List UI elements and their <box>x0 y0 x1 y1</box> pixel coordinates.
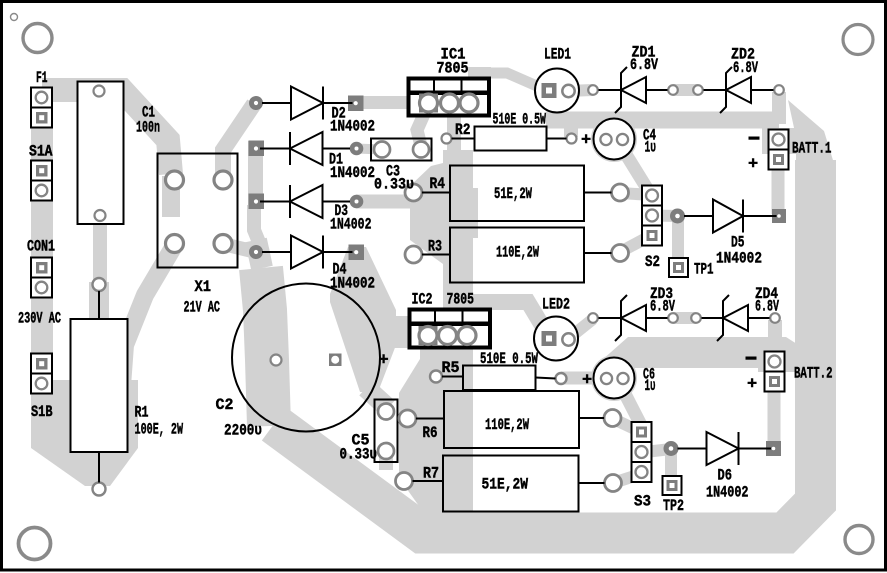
diode D2 anode pad <box>249 96 263 110</box>
svg-text:1υ: 1υ <box>645 377 656 395</box>
wire trace S3 pin2 to junction node <box>641 449 671 453</box>
wire trace D1 cathode to C3 left pad <box>356 149 382 150</box>
svg-text:21V AC: 21V AC <box>184 299 221 317</box>
op-amp U1 IC1 7805 body <box>409 79 490 116</box>
wire trace output bus right bulge <box>473 188 478 238</box>
svg-text:1N4002: 1N4002 <box>330 164 375 182</box>
zener ZD3 symbol <box>599 295 668 341</box>
switch S3 pads <box>632 422 652 482</box>
svg-text:6.8V: 6.8V <box>630 56 658 74</box>
LED2 body <box>534 317 578 361</box>
wire trace output bus below IC1 <box>443 150 473 312</box>
svg-text:S2: S2 <box>645 253 660 271</box>
diode D5 symbol <box>684 200 777 233</box>
resistor R7 pads <box>396 473 413 490</box>
capacitor C5 pads <box>378 404 394 420</box>
svg-text:0.33υ: 0.33υ <box>340 446 378 464</box>
wire trace X1 pin4 to D4 anode pad <box>223 244 256 252</box>
resistor R3 body <box>450 228 584 283</box>
svg-text:6.8V: 6.8V <box>650 298 675 316</box>
wire trace BATT.1 plus to D5 cathode pad <box>772 165 785 214</box>
svg-text:R3: R3 <box>428 238 442 256</box>
wire trace rail stub from ZD4 cathode pad <box>768 320 782 350</box>
zener ZD4 symbol <box>702 295 770 341</box>
svg-text:+: + <box>747 376 757 395</box>
svg-text:0.33υ: 0.33υ <box>374 176 414 194</box>
wire trace IC2 output bus blob R5/R6/R7 <box>399 349 473 513</box>
svg-text:100n: 100n <box>136 119 160 137</box>
wire trace between ZD3 and ZD4 <box>673 312 696 324</box>
label minus at BATT.2 <box>746 357 757 360</box>
svg-text:IC2: IC2 <box>412 291 433 309</box>
resistor R3 pads <box>405 246 422 263</box>
wire trace D3 cathode to bus <box>356 195 412 209</box>
resistor R6 leads <box>416 418 444 420</box>
diode D2 symbol <box>262 87 353 120</box>
capacitor C5 body <box>375 400 398 463</box>
wire trace R7 right pad to S3 pin3 <box>613 474 641 483</box>
wire trace inside X1 at pin1 <box>162 176 180 217</box>
capacitor C6 body <box>594 358 635 399</box>
resistor R3 leads <box>422 254 450 256</box>
resistor R6 pads <box>399 410 416 427</box>
svg-text:1N4002: 1N4002 <box>330 216 372 234</box>
resistor R5 body <box>463 366 536 391</box>
wire trace C4 to S2 pin1 <box>622 148 648 190</box>
diode D1 symbol <box>260 132 350 165</box>
zener ZD3 pads <box>588 313 598 323</box>
wire trace junction to TP2 <box>665 449 677 481</box>
wire trace at R1 top pad <box>89 282 109 321</box>
wire trace F1 top pad mound <box>31 87 53 108</box>
svg-text:R2: R2 <box>455 121 471 139</box>
resistor R7 body <box>443 456 579 512</box>
switch S1A pads <box>31 161 52 201</box>
capacitor C2 body <box>232 284 380 432</box>
svg-text:7805: 7805 <box>437 60 469 78</box>
diode D4 anode pad <box>249 245 263 259</box>
wire trace X1 pin2 up to D2 anode pad <box>223 104 254 184</box>
LED1 body <box>535 69 579 113</box>
svg-text:110E,2W: 110E,2W <box>496 244 539 262</box>
wire trace D1-D3 left pads vertical <box>248 141 263 208</box>
node junction pad near S3 <box>664 441 679 456</box>
capacitor C4 body <box>594 119 635 160</box>
svg-text:C2: C2 <box>216 396 234 414</box>
zener ZD4 right pad <box>770 313 780 323</box>
diode D3 symbol <box>260 185 350 218</box>
zener ZD1 symbol <box>599 67 668 113</box>
svg-text:230V AC: 230V AC <box>18 310 61 328</box>
wire trace S2 pin2 to junction node <box>652 210 678 223</box>
wire trace ground belt around bottom and right side <box>274 160 816 533</box>
diode D4 symbol <box>262 236 353 269</box>
capacitor C1 body <box>78 82 124 225</box>
svg-text:6.8V: 6.8V <box>733 59 758 77</box>
diode D5 cathode pad square <box>772 209 786 223</box>
wire trace D2 cathode to IC1 pin1 <box>355 96 430 109</box>
wire trace ground belt top chamfer tip <box>788 100 836 170</box>
mounting hole top-right <box>843 25 873 55</box>
svg-text:F1: F1 <box>36 69 48 87</box>
transformer X1 pads <box>166 171 184 189</box>
svg-text:BATT.1: BATT.1 <box>792 140 832 158</box>
svg-text:LED2: LED2 <box>542 296 570 314</box>
wire trace D1/D3 node down into C2 <box>254 205 263 252</box>
svg-text:1N4002: 1N4002 <box>330 275 375 293</box>
wire trace S1B to R1 blob <box>31 380 138 486</box>
node junction pad near S2 <box>670 209 685 224</box>
svg-text:D6: D6 <box>718 467 733 485</box>
resistor R2 body <box>475 127 547 151</box>
svg-text:R6: R6 <box>423 424 438 442</box>
capacitor C2 negative pad <box>271 355 282 366</box>
capacitor C4 pads <box>600 134 628 145</box>
resistor R1 leads <box>98 291 100 319</box>
wire trace from F1/C1 top to transformer X1 pin1 <box>42 90 171 174</box>
wire trace rail stub from ZD2 cathode pad <box>772 92 786 124</box>
resistor R7 leads <box>413 480 444 482</box>
diode D6 symbol <box>678 432 772 465</box>
svg-text:R1: R1 <box>135 404 149 422</box>
wire trace IC1 pin1 to C3 right pad <box>417 112 425 146</box>
transformer X1 body <box>158 154 238 268</box>
svg-text:R7: R7 <box>423 465 439 483</box>
wire trace IC1 output band to LED1 <box>486 73 546 90</box>
op-amp U1 IC1 pad squares and rings <box>419 94 478 113</box>
zener ZD2 right pad <box>774 85 784 95</box>
test point TP1 pad <box>669 258 688 277</box>
switch S2 pads <box>642 186 662 246</box>
op-amp U2 IC2 7805 body <box>410 310 491 348</box>
LED2 pads <box>542 331 575 346</box>
svg-text:51E,2W: 51E,2W <box>494 185 532 203</box>
zener ZD1 pads <box>588 85 598 95</box>
capacitor C3 body <box>371 139 432 161</box>
wire trace R3 right pad to S2 pin3 <box>620 235 652 252</box>
wire trace BATT.2 plus to D6 cathode pad <box>768 390 781 446</box>
svg-text:110E,2W: 110E,2W <box>485 416 529 434</box>
battery BATT.1 pads <box>769 130 789 170</box>
switch S1B pads <box>31 354 52 394</box>
wire trace blob branch to IC2 pin1 <box>378 316 432 348</box>
wire trace IC1 pin3 stub up <box>468 67 491 80</box>
wire trace rail stub to R2 right pad <box>564 120 578 137</box>
wire trace BATT.1 minus blob <box>762 128 802 154</box>
wire trace BATT.2 minus blob <box>758 348 802 372</box>
wire trace R5 right pad to C6 <box>561 372 606 385</box>
svg-text:CON1: CON1 <box>27 238 55 256</box>
svg-text:TP2: TP2 <box>663 497 684 515</box>
LED1 pads <box>542 83 575 98</box>
capacitor C1 pads <box>94 86 105 97</box>
battery BATT.2 pads <box>765 352 785 392</box>
svg-text:1N4002: 1N4002 <box>716 250 762 268</box>
test point TP2 pad <box>663 476 682 495</box>
svg-text:+: + <box>581 132 591 151</box>
svg-text:7805: 7805 <box>447 291 475 309</box>
resistor R4 body <box>450 166 584 222</box>
svg-text:R4: R4 <box>430 175 446 193</box>
resistor R1 body <box>71 319 128 452</box>
wire trace blob taper to C5 top pad <box>366 388 388 408</box>
op-amp U2 IC2 pad squares and rings <box>419 326 477 345</box>
svg-text:1N4002: 1N4002 <box>706 484 749 502</box>
wire trace junction to TP1 <box>672 216 684 262</box>
resistor R5 pads <box>430 371 442 383</box>
wire trace vertical bus F1-S1A-CON1-S1B <box>31 98 53 394</box>
resistor R2 leads <box>452 138 475 140</box>
wire trace mound behind C6 <box>591 355 637 401</box>
wire trace top rail ZD2 to C4/R2 <box>546 112 779 129</box>
svg-text:51E,2W: 51E,2W <box>482 476 529 494</box>
wire trace D4 cathode blob to C2 plus <box>330 247 396 392</box>
svg-text:+: + <box>748 156 758 175</box>
fuse F1 holder pads <box>31 88 52 128</box>
wire trace C1 bottom pad to R1 top pad <box>93 217 107 284</box>
svg-text:6.8V: 6.8V <box>755 298 779 316</box>
wire trace C2 negative plane <box>261 268 269 426</box>
diode D2 cathode pad square <box>348 96 364 112</box>
svg-text:X1: X1 <box>195 278 212 296</box>
diode D1 pad square <box>249 141 265 157</box>
wire trace mound behind C4 <box>591 116 637 162</box>
zener ZD2 symbol <box>704 67 774 113</box>
mounting hole bottom-left <box>19 528 51 560</box>
diode D4 cathode pad square <box>349 245 365 261</box>
resistor R2 pads <box>442 134 452 144</box>
wire trace C6 to S3 pin1 <box>622 388 641 425</box>
resistor R4 pads <box>405 184 422 201</box>
connector CON1 pads <box>31 258 52 298</box>
svg-text:+: + <box>582 372 592 391</box>
capacitor C6 pads <box>601 373 629 384</box>
wire trace R4 right pad to S2 pin1 <box>620 193 652 195</box>
mounting hole bottom-right <box>845 526 873 554</box>
label minus at BATT.1 <box>749 137 760 140</box>
svg-text:+: + <box>379 352 389 371</box>
wire trace LED1 cathode to ZD1 pad <box>567 90 593 91</box>
diode D3 cathode pad <box>350 195 364 209</box>
svg-text:1υ: 1υ <box>645 139 657 157</box>
svg-text:LED1: LED1 <box>544 46 571 64</box>
wire trace between ZD1 and ZD2 <box>673 84 698 96</box>
mounting hole top-left <box>23 24 52 53</box>
resistor R5 leads <box>442 376 463 378</box>
svg-text:TP1: TP1 <box>694 261 714 279</box>
svg-text:R5: R5 <box>442 359 460 377</box>
svg-text:510E 0.5W: 510E 0.5W <box>480 350 538 368</box>
wire trace IC2 pin3 stub up <box>444 292 468 311</box>
svg-text:510E 0.5W: 510E 0.5W <box>493 111 547 129</box>
capacitor C2 positive pad square <box>329 354 342 367</box>
diode D3 pad square <box>249 194 265 210</box>
capacitor C3 pads <box>374 142 390 158</box>
diode D6 cathode pad square <box>766 441 781 456</box>
wire trace C5 bottom pad stub <box>379 452 393 470</box>
svg-text:BATT.2: BATT.2 <box>794 365 833 383</box>
diode D1 cathode pad <box>350 142 364 156</box>
small registration mark <box>11 14 18 21</box>
svg-text:S1A: S1A <box>29 143 53 161</box>
resistor R1 pads <box>93 278 106 291</box>
svg-text:S1B: S1B <box>31 403 53 421</box>
svg-text:S3: S3 <box>634 493 651 511</box>
svg-text:2200υ: 2200υ <box>224 422 262 440</box>
resistor R6 body <box>444 391 579 448</box>
wire trace R6 right pad to S3 pin1 <box>613 419 642 433</box>
wire trace output bus bulge at R4/R3 left pads <box>410 163 443 264</box>
wire trace X1 pin3 down to R1 blob <box>122 246 174 386</box>
wire trace IC1 pin2 stub down to R2 left pad <box>447 113 461 153</box>
svg-text:100E, 2W: 100E, 2W <box>135 421 184 439</box>
resistor R4 leads <box>422 192 450 194</box>
wire trace bottom rail ZD4 to C6 <box>593 337 800 368</box>
wire trace LED2 cathode to ZD3 pad <box>568 319 593 339</box>
wire trace IC2 output band to LED2 <box>462 302 549 337</box>
svg-text:1N4002: 1N4002 <box>330 118 375 136</box>
